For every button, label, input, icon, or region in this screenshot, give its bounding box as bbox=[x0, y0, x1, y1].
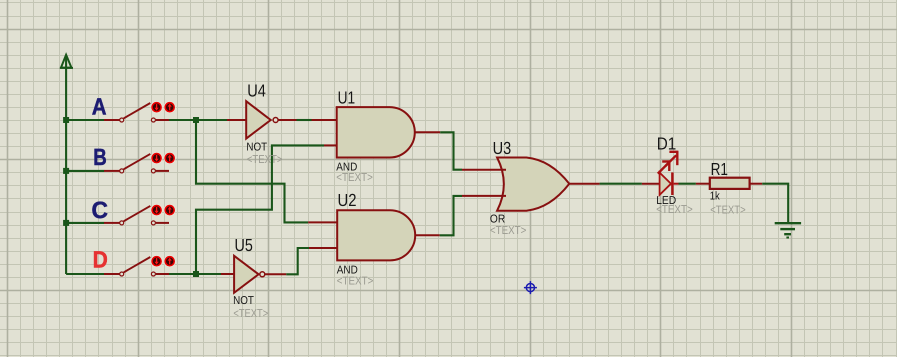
junction node A bbox=[193, 117, 199, 123]
and gate U1 bbox=[312, 107, 441, 157]
svg-text:U1: U1 bbox=[338, 88, 356, 108]
junction node D bbox=[193, 271, 199, 277]
svg-text:OR: OR bbox=[490, 214, 505, 226]
or gate U3 bbox=[462, 158, 600, 211]
junction rail/B bbox=[63, 168, 69, 174]
wire: switch A to U4 bbox=[169, 119, 227, 121]
wire: node D up to U1 input 2 (net D) bbox=[196, 145, 324, 274]
ground bbox=[775, 223, 801, 237]
svg-text:U3: U3 bbox=[493, 138, 512, 158]
svg-text:C: C bbox=[92, 197, 109, 223]
wire: rail to switch B bbox=[66, 170, 104, 172]
resistor R1 bbox=[696, 178, 762, 189]
not gate U5 bbox=[221, 256, 286, 293]
svg-text:<TEXT>: <TEXT> bbox=[656, 204, 693, 216]
switch B bbox=[104, 152, 176, 173]
svg-text:<TEXT>: <TEXT> bbox=[247, 154, 283, 166]
power symbol (arrow up) bbox=[60, 55, 73, 68]
svg-text:U2: U2 bbox=[338, 190, 357, 210]
junction rail/C bbox=[63, 220, 69, 226]
svg-text:NOT: NOT bbox=[246, 142, 267, 154]
wire: U4 out to U1 in1 bbox=[297, 119, 312, 121]
svg-text:<TEXT>: <TEXT> bbox=[490, 225, 527, 237]
origin marker bbox=[524, 281, 537, 294]
wire: U3 out to LED bbox=[600, 183, 642, 185]
svg-text:B: B bbox=[93, 144, 107, 170]
svg-text:<TEXT>: <TEXT> bbox=[710, 205, 746, 217]
wire: rail to switch C bbox=[66, 222, 104, 224]
svg-text:<TEXT>: <TEXT> bbox=[337, 276, 374, 288]
wire: U5 out to U2 in2 bbox=[286, 248, 309, 274]
wire: R1 to ground bbox=[762, 184, 788, 222]
svg-text:NOT: NOT bbox=[233, 295, 254, 307]
led D1 bbox=[642, 151, 679, 195]
svg-text:R1: R1 bbox=[711, 159, 728, 179]
wire: rail to switch A bbox=[66, 119, 104, 121]
svg-text:<TEXT>: <TEXT> bbox=[336, 172, 373, 184]
svg-text:A: A bbox=[92, 93, 107, 119]
wire: switch D to U5 bbox=[169, 273, 221, 275]
junction rail/A bbox=[63, 117, 69, 123]
not gate U4 bbox=[227, 101, 297, 138]
svg-text:U5: U5 bbox=[235, 235, 253, 255]
svg-text:1k: 1k bbox=[710, 191, 720, 203]
wire: rail to switch D bbox=[66, 273, 104, 275]
wire: power rail vertical bus bbox=[65, 56, 67, 275]
svg-text:D1: D1 bbox=[657, 133, 677, 153]
wire: node A down to U2 input (net A2) bbox=[196, 120, 308, 222]
wire: U1 out to U3 in1 bbox=[440, 132, 462, 169]
wire: LED to R1 bbox=[679, 183, 696, 185]
switch C bbox=[104, 204, 176, 225]
svg-text:<TEXT>: <TEXT> bbox=[233, 308, 268, 320]
switch A bbox=[104, 101, 176, 122]
svg-text:D: D bbox=[93, 247, 108, 273]
svg-text:U4: U4 bbox=[247, 81, 266, 101]
wire: U2 out to U3 in2 bbox=[440, 196, 462, 235]
and gate U2 bbox=[308, 210, 440, 260]
switch D bbox=[104, 255, 176, 276]
